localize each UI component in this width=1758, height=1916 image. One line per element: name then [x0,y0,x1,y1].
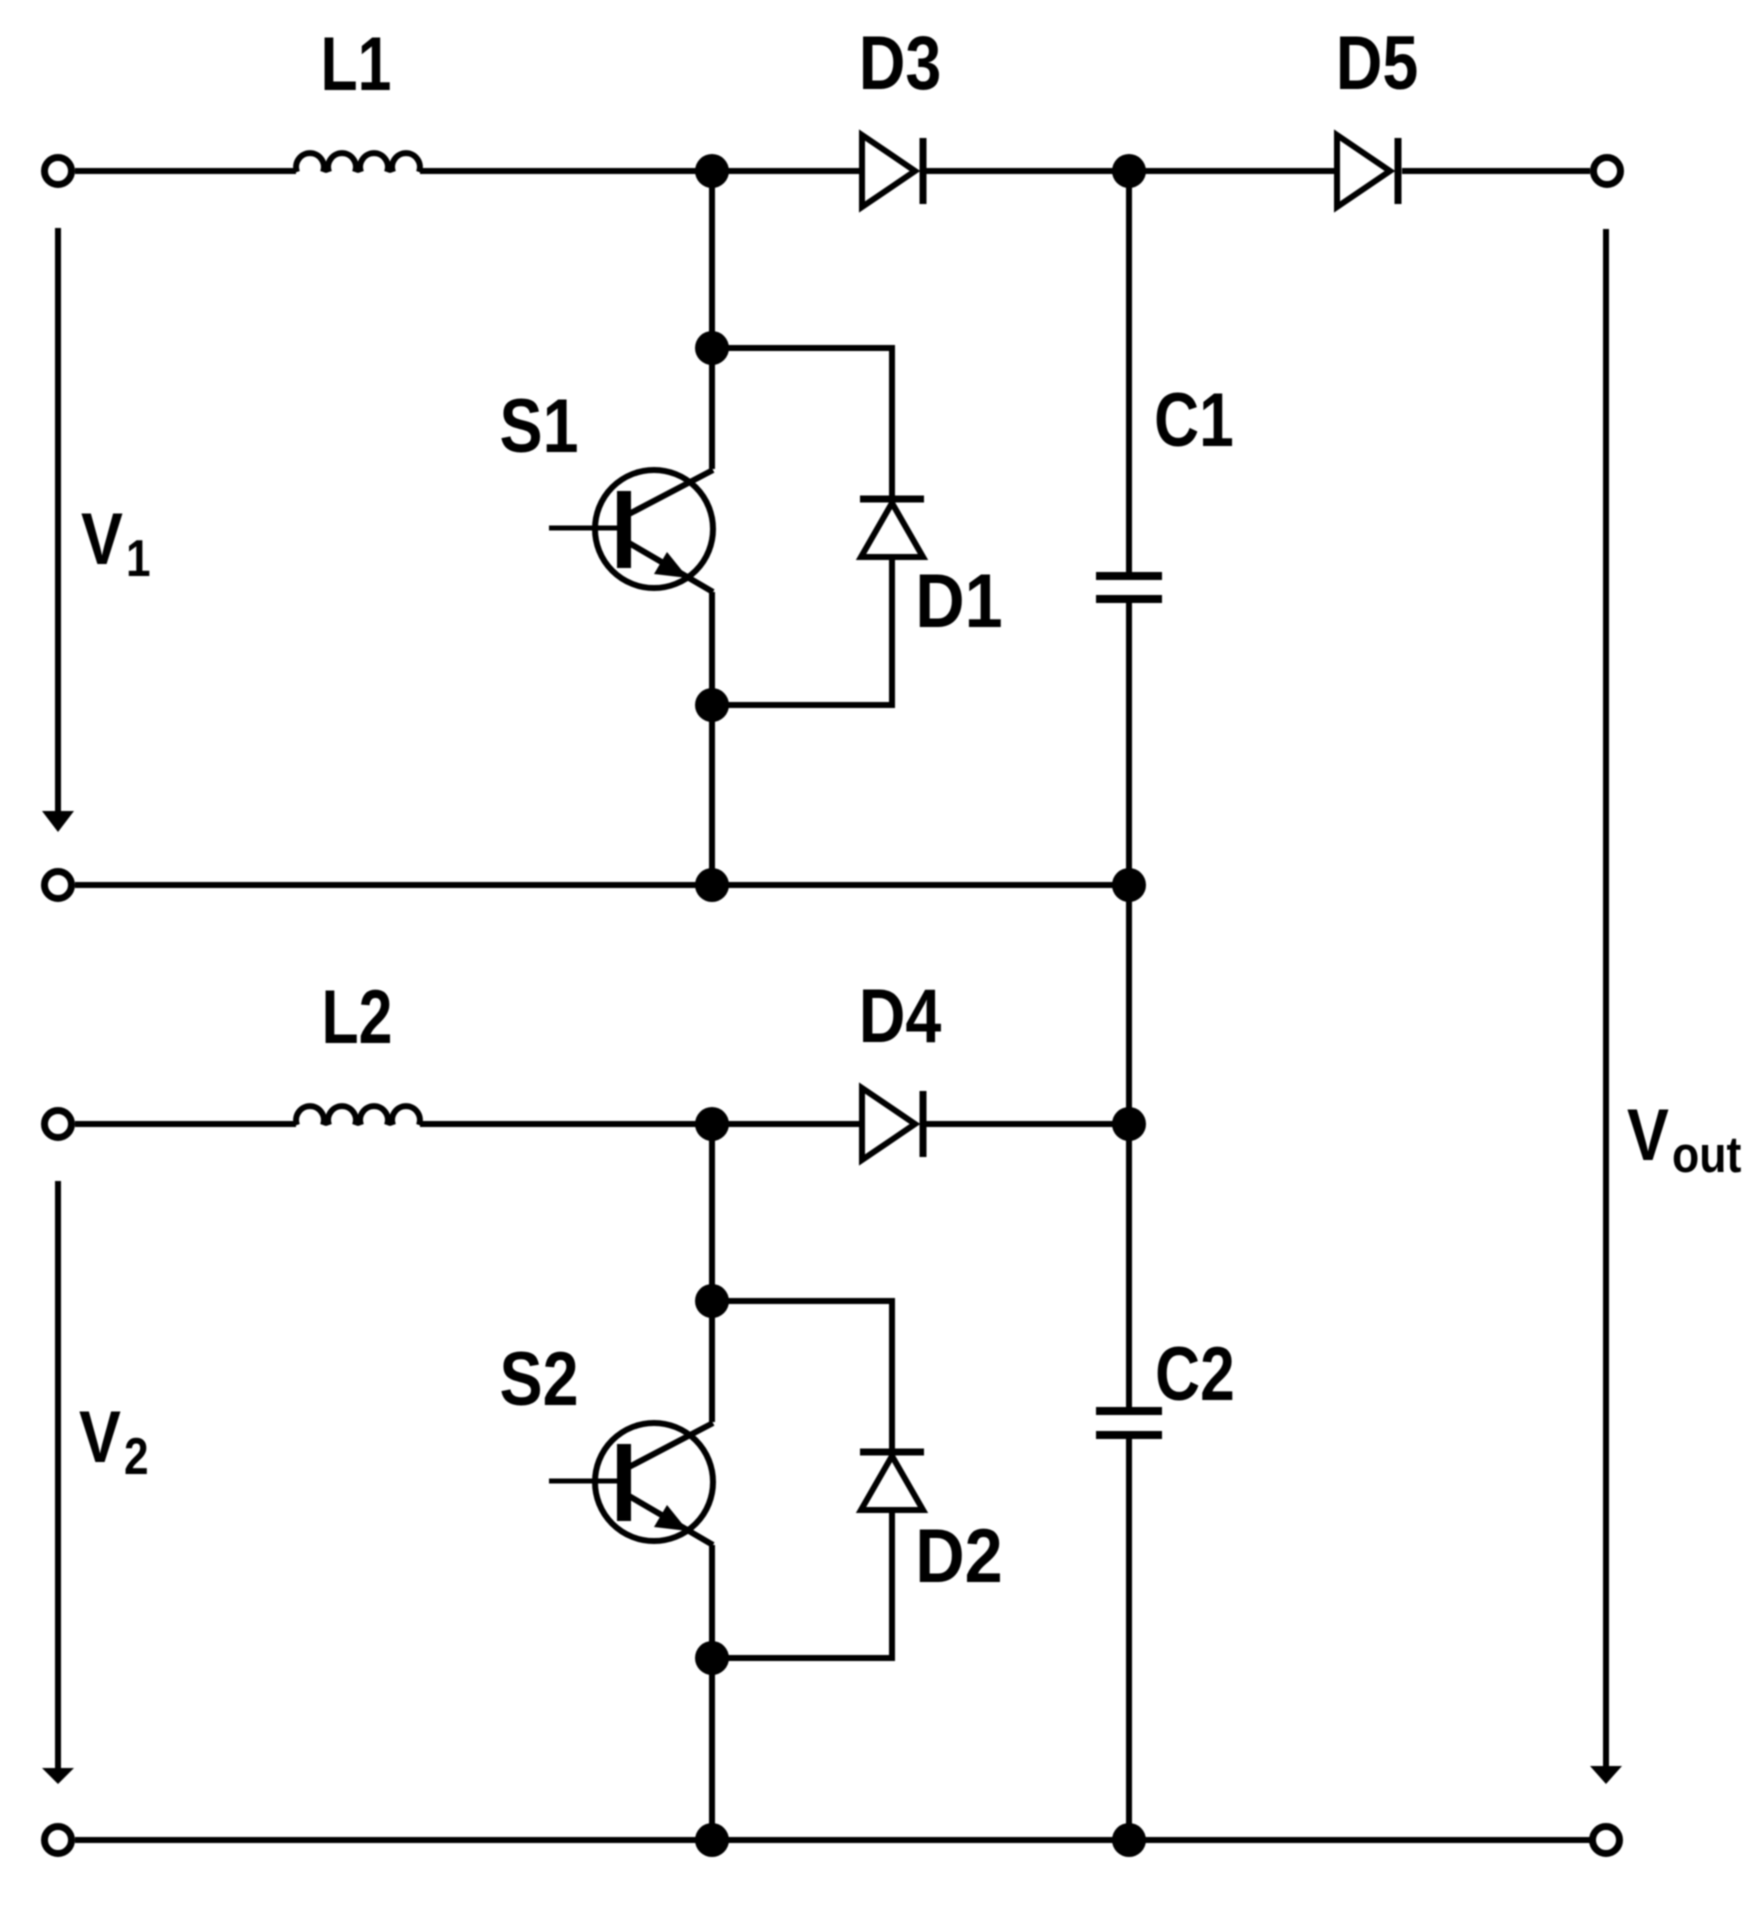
svg-text:S2: S2 [499,1336,578,1421]
svg-text:2: 2 [124,1428,149,1486]
svg-text:D4: D4 [859,973,942,1058]
svg-text:V: V [79,1397,121,1478]
svg-text:V: V [1627,1095,1669,1176]
svg-text:C2: C2 [1155,1331,1235,1416]
svg-text:D1: D1 [915,560,1002,644]
svg-text:S1: S1 [499,383,578,468]
svg-text:D5: D5 [1336,20,1419,105]
svg-text:D3: D3 [859,20,942,105]
svg-text:V: V [81,499,123,580]
svg-text:D2: D2 [915,1515,1002,1599]
svg-text:out: out [1672,1127,1741,1183]
svg-text:C1: C1 [1154,377,1234,462]
svg-text:L2: L2 [322,975,393,1060]
svg-text:L1: L1 [321,22,392,107]
svg-text:1: 1 [126,530,151,588]
